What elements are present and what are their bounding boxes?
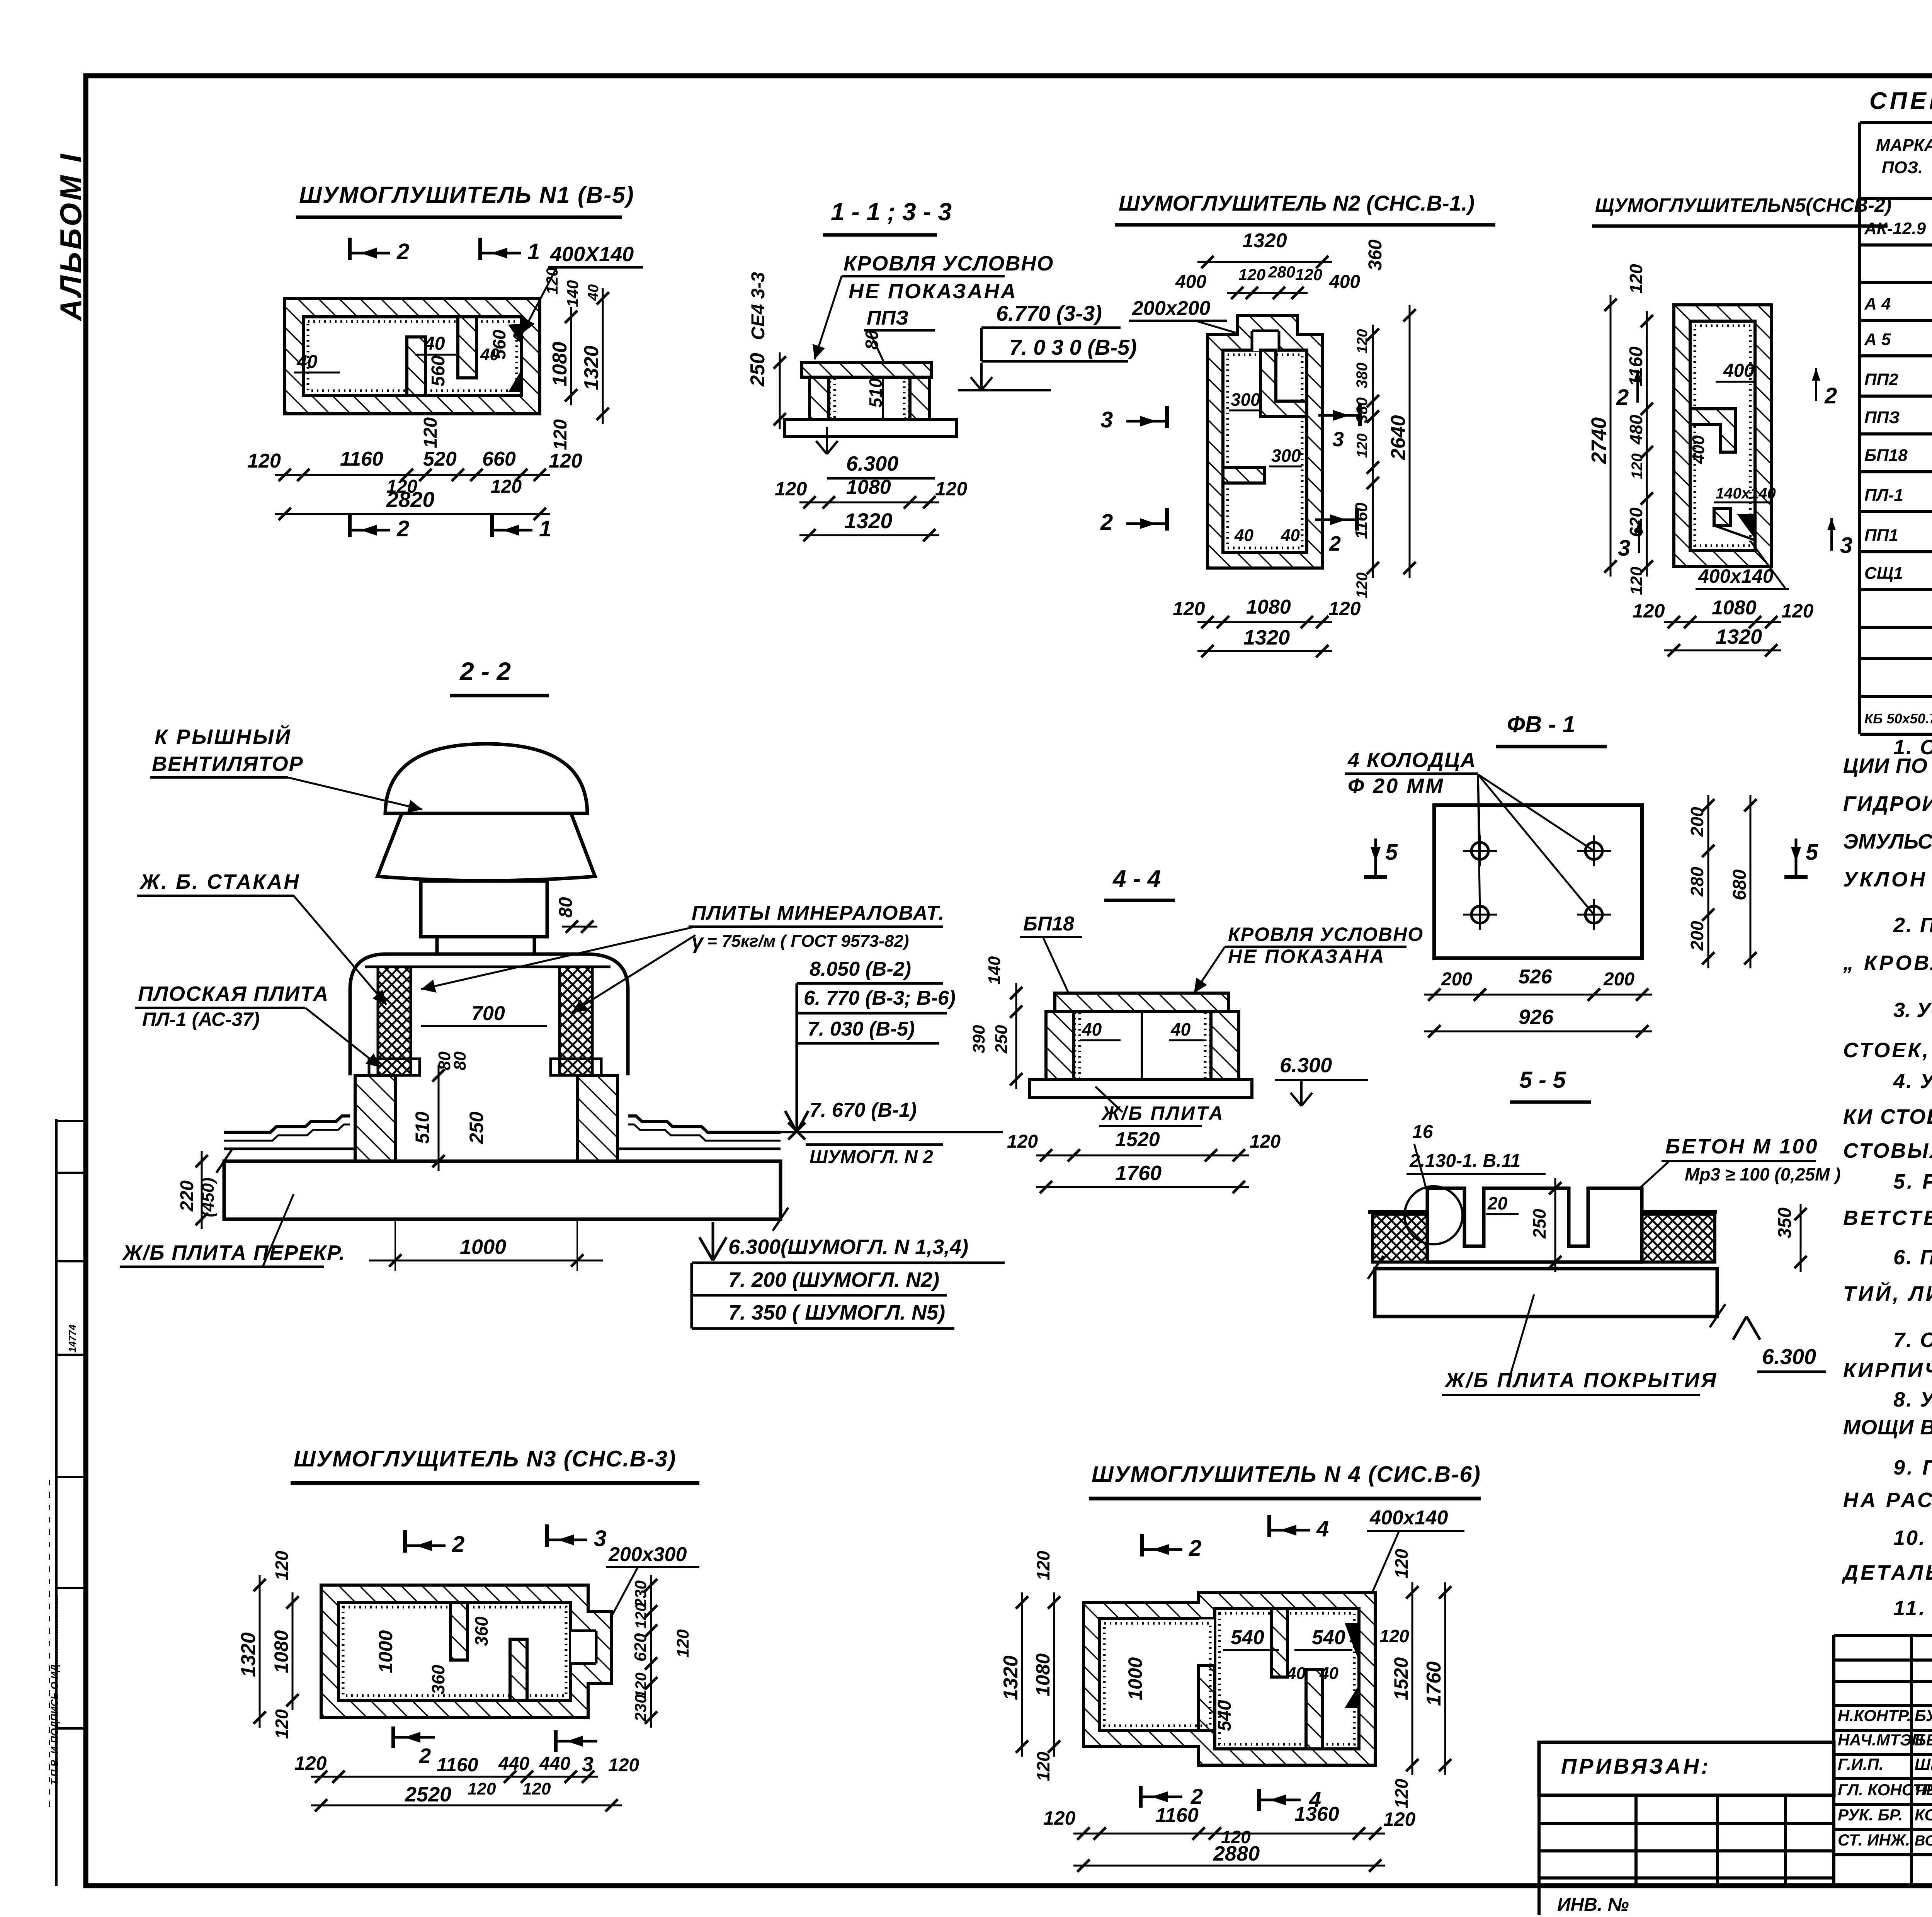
svg-text:80: 80 <box>556 897 576 918</box>
svg-text:БЕГАНСКАЯ: БЕГАНСКАЯ <box>1915 1731 1932 1749</box>
svg-text:6.300: 6.300 <box>1762 1344 1816 1369</box>
roof build-up zigzag left <box>224 1116 350 1132</box>
N1 right dims <box>570 307 572 405</box>
concrete stack housing <box>350 954 628 1075</box>
roof build-up zigzag right <box>628 1116 781 1132</box>
N2 baffle left <box>1223 468 1264 483</box>
svg-text:11. ВСЕ ПАРАПЕТЫ ОТДЕЛАТЬ О: 11. ВСЕ ПАРАПЕТЫ ОТДЕЛАТЬ ОЦИНКОВАННОЙ С… <box>1893 1596 1932 1620</box>
svg-text:8. УТЕПЛИТЕЛЬ ИЗ МИНЕРАЛОВА: 8. УТЕПЛИТЕЛЬ ИЗ МИНЕРАЛОВАТНЫХ ПЛИТ КРЕ… <box>1893 1388 1932 1411</box>
svg-text:120: 120 <box>1379 1626 1409 1646</box>
svg-text:СТОЕК, РАДИО СМ. СЕРИЮ 2: СТОЕК, РАДИО СМ. СЕРИЮ 2,260-1 ВЫП. 4. <box>1843 1039 1932 1062</box>
svg-text:120: 120 <box>1626 264 1646 294</box>
svg-text:К РЫШНЫЙ: К РЫШНЫЙ <box>155 725 292 748</box>
x mark at roof <box>788 1123 805 1140</box>
svg-text:140: 140 <box>563 280 582 307</box>
svg-text:1320: 1320 <box>1243 626 1290 649</box>
N5 left dims <box>1646 311 1648 577</box>
svg-text:120: 120 <box>294 1752 327 1774</box>
svg-text:7. 030 (В-5): 7. 030 (В-5) <box>808 1018 915 1040</box>
svg-text:1000: 1000 <box>375 1630 396 1673</box>
svg-text:120: 120 <box>1033 1752 1053 1781</box>
svg-text:ИНВ. №: ИНВ. № <box>1557 1895 1629 1915</box>
svg-text:1760: 1760 <box>1115 1162 1162 1185</box>
svg-text:510: 510 <box>412 1111 433 1144</box>
svg-text:380: 380 <box>1354 397 1371 423</box>
svg-text:3: 3 <box>594 1526 606 1551</box>
svg-text:120: 120 <box>673 1629 692 1658</box>
svg-text:120: 120 <box>633 1603 650 1629</box>
svg-text:ЧЕРНЕЦКИЙ: ЧЕРНЕЦКИЙ <box>1915 1780 1932 1799</box>
svg-text:120: 120 <box>272 1551 292 1580</box>
svg-text:120: 120 <box>1781 600 1814 622</box>
svg-text:1320: 1320 <box>1242 230 1287 252</box>
svg-text:540: 540 <box>1312 1626 1345 1649</box>
svg-text:8.050 (В-2): 8.050 (В-2) <box>810 958 911 980</box>
svg-text:200х300: 200х300 <box>608 1543 687 1566</box>
svg-text:ШЕЛЕВАЯ: ШЕЛЕВАЯ <box>1915 1755 1932 1773</box>
svg-text:7. 670 (В-1): 7. 670 (В-1) <box>810 1099 917 1121</box>
5-5 right insulation block <box>1642 1214 1715 1262</box>
svg-text:ЦИИ ПО ПРОЕКТИРОВАНИЮ И УСТ: ЦИИ ПО ПРОЕКТИРОВАНИЮ И УСТРОЙСТВУ КРОВЕ… <box>1843 754 1932 777</box>
svg-text:БЕТОН М 100: БЕТОН М 100 <box>1665 1135 1819 1158</box>
svg-text:400х140: 400х140 <box>1369 1507 1448 1529</box>
svg-text:540: 540 <box>1231 1626 1264 1649</box>
FV-1 plate <box>1434 805 1642 958</box>
svg-text:ШУМОГЛУЩИТЕЛЬ N3 (СНС.В-3): ШУМОГЛУЩИТЕЛЬ N3 (СНС.В-3) <box>294 1446 676 1471</box>
svg-text:400х140: 400х140 <box>1698 565 1774 587</box>
svg-text:120: 120 <box>935 478 968 500</box>
svg-text:БУХАРИНА: БУХАРИНА <box>1915 1706 1932 1725</box>
svg-text:9. ПАРАПЕТ УСТРАИВАТЬ ТОЛЩ: 9. ПАРАПЕТ УСТРАИВАТЬ ТОЛЩИНОЙ 25 СМ ( К… <box>1893 1455 1932 1479</box>
svg-text:АК-12.9: АК-12.9 <box>1864 219 1926 238</box>
svg-text:СПЕЦИФИКАЦИЯ ЭЛЕМЕНТОВ К ПЛА: СПЕЦИФИКАЦИЯ ЭЛЕМЕНТОВ К ПЛАНУ КРОВЛИ <box>1869 88 1932 114</box>
N5 bottom stubs <box>1714 509 1730 526</box>
svg-text:2: 2 <box>1616 385 1629 410</box>
N1 section marks <box>348 238 352 260</box>
svg-text:Ж/Б ПЛИТА: Ж/Б ПЛИТА <box>1101 1102 1225 1124</box>
svg-text:5. РАБОТЫ ПО УСТРОЙСТВУ КР: 5. РАБОТЫ ПО УСТРОЙСТВУ КРЫШИ ПРОИЗВОДИТ… <box>1893 1169 1932 1193</box>
svg-text:МАРКА: МАРКА <box>1876 136 1932 155</box>
N1 bottom dims <box>275 474 550 476</box>
svg-text:2. ПРИ УСТРОЙСТВЕ КРОВЛИ РУ: 2. ПРИ УСТРОЙСТВЕ КРОВЛИ РУКОВОДСТВОВАТЬ… <box>1893 913 1932 937</box>
svg-text:120: 120 <box>1354 434 1371 458</box>
N1 baffle bottom <box>407 337 425 395</box>
svg-text:2: 2 <box>1824 383 1837 408</box>
svg-text:120: 120 <box>549 450 582 472</box>
FV-1 bottom dims <box>1424 994 1652 996</box>
svg-text:3: 3 <box>1100 407 1113 432</box>
1-1 top slab <box>802 362 931 377</box>
svg-text:2820: 2820 <box>386 487 435 512</box>
svg-text:540: 540 <box>1214 1700 1235 1731</box>
spec table grid <box>1860 121 1932 124</box>
svg-text:ШУМОГЛУШИТЕЛЬ N 4 (СИС.В-6): ШУМОГЛУШИТЕЛЬ N 4 (СИС.В-6) <box>1092 1462 1481 1487</box>
svg-text:СЩ1: СЩ1 <box>1864 564 1903 583</box>
svg-text:УКЛОН КРОВЛИ = 0.025.: УКЛОН КРОВЛИ = 0.025. <box>1843 868 1932 891</box>
svg-text:80: 80 <box>451 1051 469 1070</box>
svg-text:480: 480 <box>1626 415 1646 445</box>
svg-text:120: 120 <box>1629 453 1646 479</box>
svg-text:520: 520 <box>423 448 457 470</box>
svg-text:МОЩИ ВЫПУСКОВ АРМАТУРЫ Ф: МОЩИ ВЫПУСКОВ АРМАТУРЫ Ф 6 АI ИЗ КИРПИЧН… <box>1843 1415 1932 1439</box>
6.300 mark <box>816 427 838 454</box>
svg-text:2640: 2640 <box>1387 415 1410 460</box>
svg-text:3: 3 <box>1840 533 1852 558</box>
N5 baffle (L-shape from left) <box>1690 409 1736 452</box>
svg-text:200: 200 <box>1441 969 1472 990</box>
svg-text:120: 120 <box>522 1779 551 1798</box>
FV-1 section marks 5 <box>1364 875 1387 879</box>
svg-text:1160: 1160 <box>1155 1804 1199 1827</box>
N4 bottom dims <box>1073 1833 1385 1835</box>
1-1 walls <box>810 377 829 419</box>
svg-text:390: 390 <box>969 1025 988 1053</box>
svg-text:ВЕНТИЛЯТОР: ВЕНТИЛЯТОР <box>152 752 304 776</box>
svg-text:1080: 1080 <box>846 476 891 498</box>
N1 opening wedges 400x140 <box>508 324 521 344</box>
5-5 bottom slab <box>1375 1269 1717 1317</box>
svg-text:КБ 50х50.7: КБ 50х50.7 <box>1864 711 1932 726</box>
svg-text:120: 120 <box>1627 566 1646 595</box>
svg-text:700: 700 <box>471 1002 505 1025</box>
svg-text:1360: 1360 <box>1294 1803 1339 1825</box>
svg-text:120: 120 <box>247 450 281 472</box>
svg-text:40: 40 <box>1234 526 1253 545</box>
svg-text:АЛЬБОМ I: АЛЬБОМ I <box>54 152 88 321</box>
svg-text:БП18: БП18 <box>1864 446 1908 465</box>
svg-text:1000: 1000 <box>1124 1657 1146 1700</box>
svg-text:620: 620 <box>631 1633 650 1662</box>
svg-text:400: 400 <box>1689 435 1708 464</box>
svg-text:40: 40 <box>585 284 602 301</box>
svg-text:ППЗ: ППЗ <box>867 307 908 329</box>
svg-text:1320: 1320 <box>1716 625 1762 648</box>
N4 right dims <box>1412 1582 1413 1775</box>
N3 left dims <box>292 1592 294 1710</box>
svg-text:40: 40 <box>1319 1664 1338 1683</box>
4-4 bottom dims <box>1036 1155 1249 1157</box>
svg-text:120: 120 <box>1173 598 1205 619</box>
svg-text:2520: 2520 <box>405 1783 451 1806</box>
6.300 at 5-5 <box>1733 1317 1760 1340</box>
roof ventilator dome <box>385 744 587 813</box>
svg-text:7. 350 ( ШУМОГЛ. N5): 7. 350 ( ШУМОГЛ. N5) <box>728 1301 945 1324</box>
ventilator skirt <box>378 813 595 881</box>
svg-text:120: 120 <box>1391 1779 1412 1808</box>
svg-text:1320: 1320 <box>237 1632 260 1677</box>
svg-text:120: 120 <box>1238 265 1265 284</box>
svg-text:40: 40 <box>1170 1019 1191 1039</box>
svg-text:4: 4 <box>1316 1516 1329 1541</box>
5-5 left insulation block <box>1372 1214 1427 1262</box>
N3 bottom dims <box>311 1776 598 1778</box>
svg-text:510: 510 <box>866 378 886 408</box>
svg-text:2: 2 <box>1100 510 1113 535</box>
svg-text:120: 120 <box>1391 1549 1412 1579</box>
svg-text:120: 120 <box>1250 1131 1281 1152</box>
svg-text:ЩУМОГЛУШИТЕЛЬN5(СНСВ-2): ЩУМОГЛУШИТЕЛЬN5(СНСВ-2) <box>1595 194 1891 216</box>
svg-text:40: 40 <box>1286 1664 1306 1683</box>
title block <box>1834 1634 1932 1637</box>
svg-text:250: 250 <box>992 1025 1011 1054</box>
svg-text:120: 120 <box>272 1709 292 1739</box>
svg-text:120: 120 <box>1007 1131 1038 1152</box>
svg-text:1160: 1160 <box>1352 502 1371 539</box>
N2 baffle upper (L-shape) <box>1260 350 1307 417</box>
svg-text:ПП2: ПП2 <box>1864 370 1898 389</box>
svg-text:2880: 2880 <box>1213 1842 1260 1865</box>
svg-text:2: 2 <box>1189 1536 1201 1561</box>
svg-text:230: 230 <box>631 1694 650 1722</box>
svg-text:НА РАСТВОРЕ М 50).: НА РАСТВОРЕ М 50). <box>1843 1488 1932 1512</box>
svg-text:360: 360 <box>471 1616 492 1646</box>
svg-text:Г.И.П.: Г.И.П. <box>1838 1755 1884 1773</box>
svg-text:ПЛИТЫ МИНЕРАЛОВАТ.: ПЛИТЫ МИНЕРАЛОВАТ. <box>692 902 945 924</box>
svg-text:440: 440 <box>498 1754 529 1774</box>
svg-text:40: 40 <box>1281 526 1300 545</box>
svg-text:2: 2 <box>396 239 409 264</box>
svg-text:120: 120 <box>1633 600 1665 622</box>
svg-text:РУК. БР.: РУК. БР. <box>1838 1806 1903 1824</box>
svg-text:620: 620 <box>1626 507 1646 537</box>
N5 plan walls <box>1674 305 1771 566</box>
flat plate PL-1 under housing <box>369 1059 420 1075</box>
N4 baffle top <box>1271 1609 1287 1677</box>
svg-text:526: 526 <box>1519 966 1553 988</box>
svg-text:ПЛ-1 (АС-37): ПЛ-1 (АС-37) <box>142 1009 260 1030</box>
svg-text:280: 280 <box>1687 867 1707 897</box>
svg-text:380: 380 <box>1354 362 1371 388</box>
5-5 concrete curb with slots <box>1427 1188 1642 1262</box>
svg-text:7. 0 3 0 (В-5): 7. 0 3 0 (В-5) <box>1009 335 1137 359</box>
svg-text:300: 300 <box>1271 446 1301 466</box>
svg-text:120: 120 <box>491 476 522 497</box>
svg-text:1080: 1080 <box>1246 596 1291 618</box>
svg-text:А 5: А 5 <box>1864 330 1891 349</box>
svg-text:6.300: 6.300 <box>1280 1054 1332 1077</box>
svg-text:ВЕТСТВИИ СО СНиП III - 20: ВЕТСТВИИ СО СНиП III - 20 - 74. <box>1843 1206 1932 1230</box>
svg-text:5: 5 <box>1806 840 1818 865</box>
N3 right dims <box>650 1575 652 1728</box>
svg-text:200: 200 <box>1687 807 1707 837</box>
floor slab <box>224 1161 781 1219</box>
N2 top dims <box>1197 261 1332 263</box>
svg-text:16: 16 <box>1412 1122 1433 1142</box>
N4 section marks bottom <box>1139 1786 1143 1808</box>
svg-text:120: 120 <box>1354 329 1371 354</box>
svg-text:4. УКЛАДКУ УТЕПЛИТЕЛЯ ПРОИЗВ: 4. УКЛАДКУ УТЕПЛИТЕЛЯ ПРОИЗВОДИТЬ ТОЛЬКО… <box>1893 1070 1932 1093</box>
N2 bottom dims <box>1197 621 1332 623</box>
svg-text:1080: 1080 <box>549 342 571 386</box>
N3 baffle bottom <box>510 1639 527 1700</box>
svg-text:120: 120 <box>550 419 571 450</box>
N4 left dims <box>1053 1592 1055 1757</box>
svg-text:1520: 1520 <box>1390 1657 1412 1700</box>
svg-text:200: 200 <box>1603 969 1634 990</box>
svg-text:ПЛ-1: ПЛ-1 <box>1864 486 1903 505</box>
1000 dim <box>389 1254 401 1267</box>
svg-text:КРОВЛЯ УСЛОВНО: КРОВЛЯ УСЛОВНО <box>844 252 1054 275</box>
svg-text:2 - 2: 2 - 2 <box>459 657 511 685</box>
svg-text:40: 40 <box>296 352 318 372</box>
svg-text:560: 560 <box>428 356 449 386</box>
svg-text:НЕ ПОКАЗАНА: НЕ ПОКАЗАНА <box>849 280 1017 303</box>
svg-text:400X140: 400X140 <box>550 243 634 266</box>
svg-text:1: 1 <box>539 516 551 541</box>
svg-text:6. 770 (В-3; В-6): 6. 770 (В-3; В-6) <box>804 987 956 1009</box>
svg-text:2.130-1. В.11: 2.130-1. В.11 <box>1409 1151 1520 1171</box>
1-1 floor slab <box>784 419 956 437</box>
svg-text:Мр3 ≥ 100 (0,25М ): Мр3 ≥ 100 (0,25М ) <box>1685 1164 1841 1184</box>
svg-text:120: 120 <box>608 1755 639 1776</box>
1-1 bottom dims <box>799 502 939 503</box>
svg-text:7. СТЕНКИ ВЕНТШАХТ ВЫПОЛНЯТ: 7. СТЕНКИ ВЕНТШАХТ ВЫПОЛНЯТЬ ИЗ КРАСНОГО… <box>1893 1328 1932 1352</box>
svg-text:ШУМОГЛ. N 2: ШУМОГЛ. N 2 <box>810 1147 933 1167</box>
FV-1 wells <box>1471 842 1488 859</box>
svg-text:ТИЙ, ЛИСТЫ АС - 38: ТИЙ, ЛИСТЫ АС - 38 <box>1843 1281 1932 1305</box>
svg-text:Т.П.В. И-ПОДПИСЬ О ИД.........: Т.П.В. И-ПОДПИСЬ О ИД...................… <box>49 1595 60 1785</box>
svg-text:140: 140 <box>985 956 1004 985</box>
svg-text:ДЕТАЛЬ 25.: ДЕТАЛЬ 25. <box>1842 1561 1932 1584</box>
svg-text:1320: 1320 <box>844 509 893 533</box>
svg-text:120: 120 <box>775 478 807 500</box>
mineral wool walls (cross hatch) <box>378 967 411 1075</box>
N4 plan walls <box>1083 1592 1375 1765</box>
elevation list bottom right <box>699 1222 726 1260</box>
svg-text:ППЗ: ППЗ <box>1864 408 1900 427</box>
svg-text:ПЛОСКАЯ ПЛИТА: ПЛОСКАЯ ПЛИТА <box>138 982 329 1005</box>
svg-text:250: 250 <box>747 353 769 387</box>
svg-text:120: 120 <box>1033 1551 1053 1580</box>
N3 plan walls <box>321 1585 612 1718</box>
svg-text:400: 400 <box>1329 272 1360 292</box>
svg-text:1 - 1 ; 3 - 3: 1 - 1 ; 3 - 3 <box>831 198 952 226</box>
svg-text:Ж/Б ПЛИТА ПОКРЫТИЯ: Ж/Б ПЛИТА ПОКРЫТИЯ <box>1444 1369 1718 1392</box>
4-4 top lintel slab <box>1055 993 1229 1012</box>
svg-text:3: 3 <box>1332 428 1344 451</box>
svg-text:ГИДРОИЗОЛЯЦИИ НА ОСНОВЕ БИ: ГИДРОИЗОЛЯЦИИ НА ОСНОВЕ БИТУМНЫХ И БИТУМ… <box>1843 792 1932 815</box>
svg-text:14774: 14774 <box>66 1324 78 1352</box>
svg-text:680: 680 <box>1730 869 1750 900</box>
N3 section marks top <box>403 1530 407 1553</box>
N3 baffle top <box>451 1602 468 1660</box>
svg-text:ПРИВЯЗАН:: ПРИВЯЗАН: <box>1561 1754 1711 1778</box>
svg-text:ЭМУЛЬСИОННЫХ ПАСТ И МАСТИК: ЭМУЛЬСИОННЫХ ПАСТ И МАСТИК РСН 57-84 ( Г… <box>1843 829 1932 853</box>
svg-text:7. 200 (ШУМОГЛ. N2): 7. 200 (ШУМОГЛ. N2) <box>728 1268 939 1291</box>
svg-text:ФВ - 1: ФВ - 1 <box>1507 711 1575 737</box>
svg-text:2: 2 <box>1329 532 1341 555</box>
N5 bottom dims <box>1664 621 1781 623</box>
N2 plan walls <box>1207 315 1322 568</box>
svg-text:2: 2 <box>452 1532 464 1557</box>
svg-text:40: 40 <box>510 325 527 343</box>
svg-text:360: 360 <box>428 1665 448 1694</box>
N4 baffle bottom <box>1306 1669 1322 1749</box>
svg-text:140х140: 140х140 <box>1716 485 1776 502</box>
svg-text:3: 3 <box>1618 536 1630 561</box>
svg-text:5: 5 <box>1385 840 1398 865</box>
4-4 floor slab <box>1030 1079 1252 1097</box>
svg-text:Ф 20 ММ: Ф 20 ММ <box>1348 774 1444 798</box>
svg-text:120: 120 <box>1295 265 1322 284</box>
svg-text:КИ СТОЕК РАДИО И ПРОКЛАДКИ: КИ СТОЕК РАДИО И ПРОКЛАДКИ ПО ПАНЕЛЯМ ПО… <box>1843 1105 1932 1128</box>
svg-text:НАЧ.МТЭП: НАЧ.МТЭП <box>1838 1731 1923 1749</box>
svg-text:КИРПИЧА М 75 НА ЦЕМЕНТНО-: КИРПИЧА М 75 НА ЦЕМЕНТНО- ПЕСЧАНОМ РАСТВ… <box>1843 1359 1932 1382</box>
svg-text:ШУМОГЛУШИТЕЛЬ N1 (В-5): ШУМОГЛУШИТЕЛЬ N1 (В-5) <box>299 182 634 208</box>
svg-text:10. ЗАДЕЛКА РУБЕРОИДНОГО КОВ: 10. ЗАДЕЛКА РУБЕРОИДНОГО КОВРА СМ. СЕРИЮ… <box>1893 1526 1932 1550</box>
svg-text:1320: 1320 <box>1000 1655 1022 1700</box>
svg-text:250: 250 <box>1529 1209 1549 1239</box>
svg-text:80: 80 <box>862 330 882 350</box>
N2 section marks <box>1165 406 1169 428</box>
svg-text:КРОВЛЯ УСЛОВНО: КРОВЛЯ УСЛОВНО <box>1228 924 1423 945</box>
svg-text:1160: 1160 <box>340 448 383 470</box>
svg-text:250: 250 <box>466 1111 487 1144</box>
svg-text:560: 560 <box>489 330 509 359</box>
svg-text:40: 40 <box>424 333 445 354</box>
svg-text:200х200: 200х200 <box>1132 297 1211 320</box>
svg-text:1080: 1080 <box>1032 1653 1054 1696</box>
svg-text:4 - 4: 4 - 4 <box>1112 866 1161 892</box>
svg-text:1520: 1520 <box>1115 1128 1160 1151</box>
svg-text:1: 1 <box>527 239 540 264</box>
svg-text:3. УСТАНОВКА КАНАЛИЗАЦИОННЫХ: 3. УСТАНОВКА КАНАЛИЗАЦИОННЫХ СТОЯКОВ, ВО… <box>1893 998 1932 1022</box>
svg-text:1320: 1320 <box>580 345 603 390</box>
svg-text:350: 350 <box>1775 1208 1795 1238</box>
svg-text:1080: 1080 <box>1712 597 1757 619</box>
svg-text:ВОЛЬФЛЁНОК: ВОЛЬФЛЁНОК <box>1915 1832 1932 1849</box>
N4 section marks top <box>1140 1534 1144 1556</box>
svg-text:120: 120 <box>1043 1807 1076 1829</box>
svg-text:БП18: БП18 <box>1023 913 1074 935</box>
N1 plan walls <box>285 298 540 414</box>
svg-text:СТОВЫХ ТРУБ ДЛЯ СЛАБОТОЧНЫХ: СТОВЫХ ТРУБ ДЛЯ СЛАБОТОЧНЫХ СЕТЕЙ. <box>1843 1138 1932 1162</box>
svg-text:5 - 5: 5 - 5 <box>1519 1067 1566 1093</box>
svg-text:120: 120 <box>1383 1808 1416 1830</box>
svg-text:20: 20 <box>1487 1193 1508 1213</box>
N1 baffle top <box>458 317 476 378</box>
svg-text:ШУМОГЛУШИТЕЛЬ N2 (СНС.В-1.): ШУМОГЛУШИТЕЛЬ N2 (СНС.В-1.) <box>1119 191 1475 215</box>
svg-text:СТ. ИНЖ.: СТ. ИНЖ. <box>1838 1831 1910 1849</box>
svg-text:2740: 2740 <box>1587 417 1611 464</box>
svg-text:40: 40 <box>1082 1019 1102 1039</box>
svg-text:120: 120 <box>420 417 441 448</box>
privyazan box <box>1539 1742 1834 1795</box>
svg-text:400: 400 <box>1175 272 1206 292</box>
svg-text:СЕ4 3-3: СЕ4 3-3 <box>748 272 769 340</box>
svg-text:КОЛУШЕВА: КОЛУШЕВА <box>1915 1806 1932 1824</box>
svg-text:Ж. Б. СТАКАН: Ж. Б. СТАКАН <box>139 870 300 893</box>
svg-text:926: 926 <box>1519 1005 1554 1029</box>
svg-text:Ж/Б ПЛИТА ПЕРЕКР.: Ж/Б ПЛИТА ПЕРЕКР. <box>122 1241 345 1264</box>
FV-1 right dims <box>1708 795 1709 968</box>
N3 section marks bottom <box>391 1726 395 1748</box>
svg-text:4 КОЛОДЦА: 4 КОЛОДЦА <box>1347 748 1476 772</box>
svg-text:1760: 1760 <box>1423 1661 1445 1706</box>
5-5 detail circle <box>1405 1186 1463 1244</box>
svg-text:440: 440 <box>539 1754 570 1774</box>
svg-text:γ: γ <box>692 930 704 953</box>
svg-text:200: 200 <box>1687 921 1707 951</box>
svg-text:280: 280 <box>1268 263 1295 281</box>
svg-text:1160: 1160 <box>1626 346 1646 386</box>
svg-text:660: 660 <box>482 448 516 470</box>
svg-text:400: 400 <box>1723 361 1754 381</box>
svg-text:6. ПРИ УСТРОЙСТВЕ ВЕНТШАХТ: 6. ПРИ УСТРОЙСТВЕ ВЕНТШАХТ СМ. ПЛАНЫ ЭТА… <box>1893 1245 1932 1269</box>
brick shaft walls below roof <box>355 1075 395 1161</box>
N4 wedge 400x140 <box>1345 1623 1359 1662</box>
svg-text:2: 2 <box>396 516 409 541</box>
